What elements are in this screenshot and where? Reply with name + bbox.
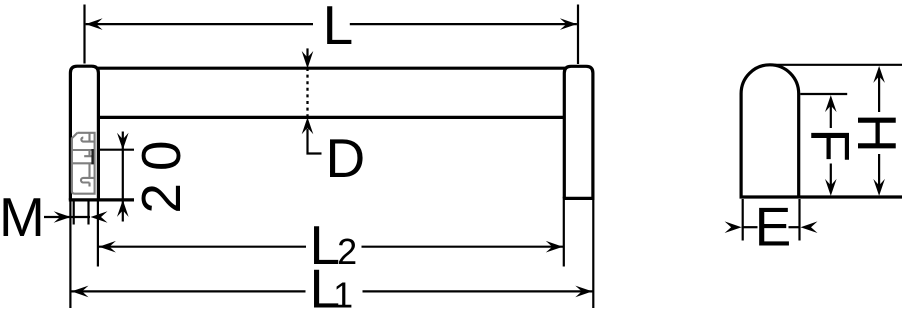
dim L1 line left segment [72,290,306,292]
dim L left extension line [83,5,85,64]
end view top tangent extension line [770,64,902,66]
thread hook bottom cell [81,163,95,186]
thread hook band cell [84,150,94,156]
dim D dotted line [306,68,308,118]
dim F line upper segment [830,105,832,129]
dim L2 left arrowhead [99,241,116,253]
dim D upper arrowhead [302,51,314,69]
dim E right extension line [798,199,800,241]
dim 20 top arrowhead [117,133,129,150]
svg-text:D: D [326,127,366,189]
dim L2 line left segment [99,246,306,248]
dim H bottom arrowhead [873,179,885,196]
dim H line upper segment [878,76,880,113]
dim M left extension line [73,202,75,225]
insert outline [72,133,95,194]
insert band line upper [72,149,95,151]
dim L1 line right segment [363,290,594,292]
dim L1 left arrowhead [72,286,89,298]
right post bottom edge [563,197,595,200]
dim M leader line [44,216,90,218]
dim 20 bottom arrowhead [117,200,129,217]
dim F top arrowhead [825,95,837,112]
dim D lower arrow shaft and elbow [308,129,322,154]
end view bottom edge with H extension [740,195,903,198]
insert band line lower [72,162,95,164]
svg-text:L: L [323,0,354,56]
dim L right arrowhead [560,18,577,30]
threaded insert [72,133,95,194]
dim L1 right extension line [592,200,594,308]
handle bar top edge [98,67,565,70]
right post [564,66,593,198]
dim F top extension line [800,93,847,95]
dim L line right segment [350,23,577,25]
dim L1 right arrowhead [575,286,592,298]
dim H line lower segment [878,154,880,187]
svg-text:E: E [755,196,792,258]
svg-text:H: H [846,113,908,153]
dim L2 line right segment [362,246,564,248]
end view bullet body [741,65,799,197]
dim L2 right extension line [563,200,565,267]
dim 20 top extension line [100,149,134,151]
dim D lower arrowhead [302,117,314,134]
thread hook top cell [81,133,94,142]
left post [70,66,98,200]
dim E line right segment [789,226,801,228]
dim E left extension line [742,199,744,241]
dim 20 line [122,132,124,222]
dim F line lower segment [830,164,832,187]
dim E right arrowhead [801,221,818,233]
dim L line left segment [86,23,313,25]
left post bottom edge [69,198,134,201]
dim M right arrowhead [91,211,108,223]
handle bar bottom edge [98,116,565,119]
svg-text:M: M [0,186,45,248]
dim E left arrowhead [725,221,742,233]
dim F bottom arrowhead [825,179,837,196]
dim E line left segment [742,226,758,228]
dim L right extension line [577,5,579,65]
dim H top arrowhead [873,66,885,83]
svg-text:20: 20 [130,128,192,213]
dim M left arrowhead [54,211,71,223]
dim M right extension line [87,202,89,225]
dim L2 left extension line [97,202,99,267]
dim L2 right arrowhead [546,241,563,253]
dim D upper arrow shaft [306,48,308,58]
dim L1 left extension line [69,202,71,309]
dim L left arrowhead [86,18,103,30]
insert band right black stub [91,149,93,164]
